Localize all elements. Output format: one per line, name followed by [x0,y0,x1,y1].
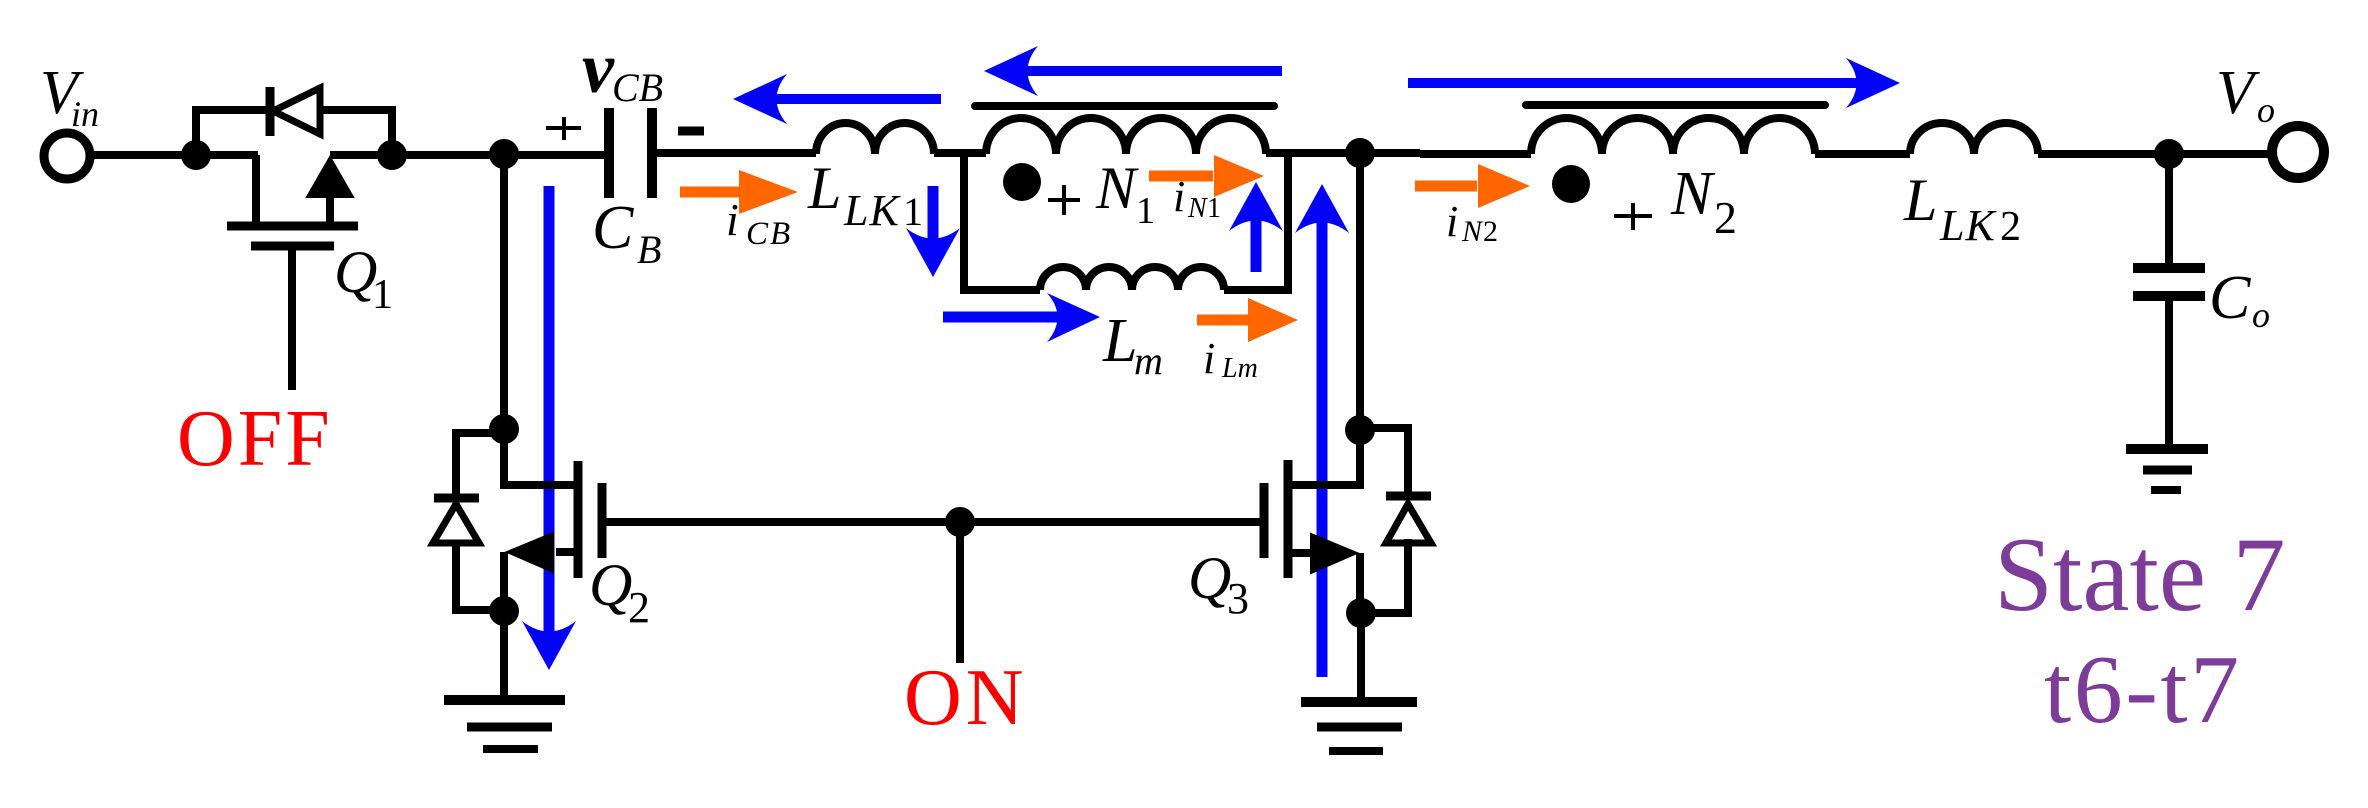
arrow iN1 orange [1149,155,1264,197]
wire rail Q1 to CB [330,151,606,159]
arrow blue A2 over N1 [984,46,1282,96]
transistor Q2 [504,429,602,611]
svg-text:LK: LK [843,186,901,235]
node Q2 bottom [489,596,519,626]
node B right of Q1 [377,140,407,170]
svg-text:i: i [1446,197,1458,246]
svg-text:3: 3 [1227,574,1249,623]
node E output [2154,139,2184,169]
svg-text:o: o [2257,90,2275,130]
svg-text:i: i [1203,334,1215,383]
svg-text:V: V [2216,59,2260,127]
svg-text:o: o [2252,295,2270,335]
svg-text:Q: Q [1188,545,1231,611]
wire Q3 diode branch top [1360,428,1408,492]
wire LLK2 to Vo [2038,150,2272,158]
label OFF [177,395,333,483]
svg-text:N: N [1670,160,1716,228]
svg-text:L: L [807,155,841,221]
inductor LLK2 [1910,123,2038,154]
svg-text:i: i [726,194,739,245]
label Vin [40,59,99,134]
node A input [181,140,211,170]
label State 7 [1994,516,2285,633]
wire CB to LLK1 [655,149,816,157]
diode D3 body of Q3 [1386,496,1431,543]
dot N2 phase [1552,165,1590,203]
node ON [945,507,975,537]
terminal Vo [2272,126,2324,178]
arrow blue A1 top left [733,74,941,124]
svg-text:2: 2 [2000,204,2021,250]
svg-text:i: i [1173,172,1185,221]
label vCB [582,28,663,110]
svg-text:State 7: State 7 [1994,516,2285,633]
label Q1 [334,239,393,318]
label N1 [1095,155,1155,232]
inductor Lm [1040,267,1224,290]
svg-text:CB: CB [746,216,792,252]
wire N2 to LLK2 [1815,150,1910,158]
label N2 [1670,160,1737,243]
svg-text:1: 1 [1207,193,1221,224]
node Q2 top [489,414,519,444]
label plus CB [546,117,581,140]
arrow blue A4 down into box [906,186,960,277]
svg-text:v: v [582,28,615,108]
label plus N2 [1614,203,1652,230]
wire gate bus Q2-Q3 [602,518,1264,526]
transformer box bottom left wire [960,286,1040,294]
svg-text:L: L [1903,167,1937,233]
svg-text:m: m [1134,338,1163,383]
wire input rail [94,151,258,159]
wire N1 to node D [1266,149,1420,157]
svg-text:OFF: OFF [177,395,333,483]
svg-text:LK: LK [1939,201,1997,250]
wire Q3 diode branch bottom [1361,539,1408,613]
wire Co to ground [2165,296,2173,449]
transistor Q1 [227,155,358,390]
core line N2 [1526,101,1825,109]
wire Q3 to ground [1357,613,1365,702]
arrow iLm orange [1197,298,1298,342]
svg-text:N: N [1187,193,1208,224]
winding N1 [986,118,1266,154]
svg-text:Q: Q [334,239,377,305]
svg-text:2: 2 [1483,215,1498,248]
label ON [904,654,1028,742]
wire Q2 diode branch top [456,433,504,494]
wire down to Q2 [500,155,508,429]
label iN1 [1173,172,1221,224]
svg-text:1: 1 [372,272,393,318]
arrow blue A8 Lm [943,293,1100,342]
label iLm [1203,334,1258,384]
node D [1345,138,1375,168]
arrow blue A6 up through Q3 [1295,184,1349,677]
transformer box bottom right wire [1224,286,1292,294]
label LLK1 [807,155,923,235]
svg-text:1: 1 [903,189,923,234]
label iCB [726,194,792,252]
label CB [592,194,661,272]
svg-text:Q: Q [589,552,632,618]
label Q3 [1188,545,1249,623]
wire ON stub [956,522,964,663]
terminal Vin [44,133,90,179]
label Q2 [589,552,650,632]
svg-text:ON: ON [904,654,1028,742]
label t6-t7 [2044,636,2242,744]
svg-text:2: 2 [628,583,650,632]
ground Q3 [1301,702,1417,751]
dot N1 phase [1003,163,1041,201]
arrow iN2 orange [1415,164,1530,208]
winding N2 [1531,118,1815,154]
arrow blue A3 top right [1408,58,1900,108]
wire Q2 diode branch bottom [456,541,504,610]
wire node D to N2 [1420,150,1531,158]
label Lm [1102,307,1163,383]
svg-text:1: 1 [1136,190,1155,232]
svg-text:C: C [592,194,634,262]
label LLK2 [1903,167,2021,250]
diode D1 body of Q1 [270,87,320,136]
core line N1 [975,102,1274,110]
arrow iCB orange [680,170,798,214]
transistor Q3 [1264,430,1360,613]
ground output [2126,449,2208,490]
wire Q2 to ground [500,611,508,700]
node C top of Q2 branch [489,139,519,169]
transformer box left edge [960,150,968,290]
diode D2 body of Q2 [433,498,479,543]
svg-text:B: B [637,227,661,272]
svg-text:in: in [71,94,99,134]
node Q3 bottom [1346,598,1376,628]
ground Q2 [444,700,565,749]
wire LLK1 to N1 [934,149,986,157]
label plus N1 [1048,185,1080,215]
inductor LLK1 [816,123,934,154]
svg-text:N: N [1095,155,1139,221]
node Q3 top [1345,415,1375,445]
svg-text:L: L [1102,307,1137,375]
svg-text:Lm: Lm [1221,353,1258,384]
capacitor CB [609,108,652,198]
arrow blue A5 up inside box [1229,182,1283,272]
capacitor Co [2133,268,2205,296]
label iN2 [1446,197,1498,248]
transformer box right edge [1284,150,1292,290]
label minus CB [678,127,704,136]
svg-text:2: 2 [1714,192,1737,243]
label Vo [2216,59,2275,130]
svg-text:t6-t7: t6-t7 [2044,636,2242,744]
svg-text:N: N [1461,215,1484,248]
wire Q1 diode branch [196,110,392,155]
svg-text:CB: CB [612,65,663,110]
wire node E down to Co [2165,154,2173,264]
arrow blue A7 down through Q2 [522,186,576,670]
svg-text:C: C [2209,264,2251,332]
label Co [2209,264,2270,335]
wire node D down to Q3 [1356,153,1364,430]
